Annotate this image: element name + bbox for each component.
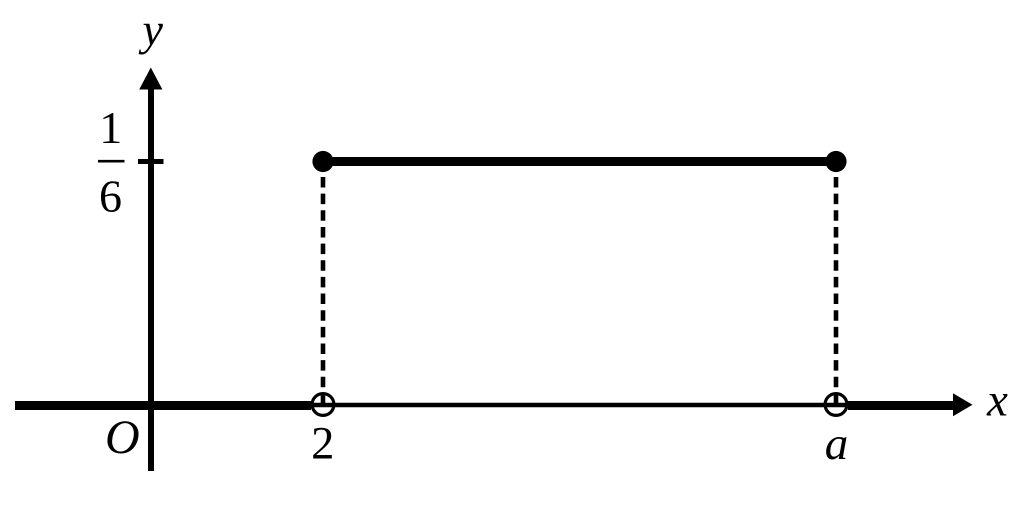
svg-text:2: 2 — [311, 419, 334, 470]
open circle at (2,0) — [312, 394, 334, 416]
x-axis arrowhead — [953, 393, 973, 416]
dashed line x=2 — [321, 177, 326, 404]
y-axis arrowhead — [139, 68, 162, 90]
fraction bar — [98, 160, 125, 163]
open circle at (a,0) — [825, 394, 847, 416]
svg-text:O: O — [105, 411, 140, 464]
density segment from (2,1/6) to (a,1/6) — [323, 157, 836, 166]
y tick at 1/6 — [138, 159, 164, 164]
filled endpoint dot at (a,1/6) — [825, 151, 846, 172]
y-axis — [148, 84, 154, 471]
x-axis thick left segment — [15, 401, 311, 410]
dashed line x=a — [834, 177, 839, 404]
svg-text:6: 6 — [99, 171, 122, 222]
filled endpoint dot at (2,1/6) — [312, 151, 333, 172]
svg-text:x: x — [986, 374, 1008, 426]
svg-text:1: 1 — [99, 102, 122, 153]
svg-text:a: a — [825, 418, 849, 470]
x-axis thin middle segment — [311, 403, 849, 408]
svg-text:y: y — [139, 4, 164, 55]
x-axis thick right segment — [848, 401, 954, 410]
